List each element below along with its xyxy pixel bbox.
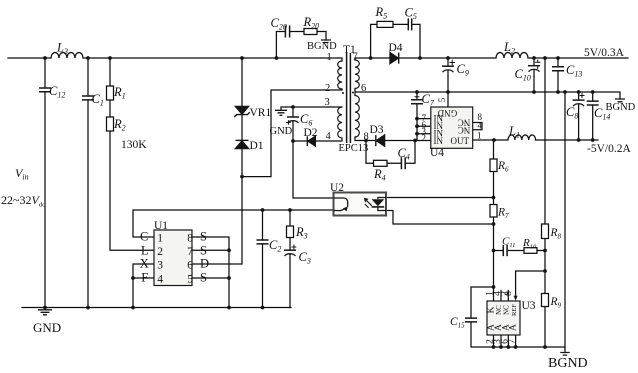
svg-text:U2: U2 (330, 182, 344, 194)
svg-text:A: A (509, 324, 519, 331)
svg-text:R1: R1 (113, 85, 126, 101)
svg-text:BGND: BGND (548, 356, 588, 371)
svg-text:GND: GND (33, 320, 61, 335)
svg-text:S: S (200, 230, 207, 244)
svg-text:6: 6 (187, 260, 193, 272)
svg-text:R20: R20 (303, 15, 320, 31)
svg-text:VR1: VR1 (250, 107, 272, 119)
svg-text:D3: D3 (370, 124, 384, 136)
svg-text:D4: D4 (389, 42, 403, 54)
svg-text:3: 3 (157, 260, 163, 272)
svg-text:C9: C9 (457, 62, 469, 78)
svg-text:R4: R4 (373, 167, 386, 183)
svg-text:C10: C10 (515, 67, 531, 83)
svg-text:C7: C7 (422, 92, 435, 108)
svg-text:2: 2 (422, 133, 427, 143)
svg-text:IN: IN (434, 136, 444, 146)
svg-text:D1: D1 (250, 140, 264, 152)
svg-text:C12: C12 (49, 84, 65, 100)
svg-text:4: 4 (157, 274, 163, 286)
svg-text:6: 6 (361, 83, 366, 94)
svg-text:S: S (200, 243, 207, 257)
svg-text:130K: 130K (121, 139, 147, 151)
svg-text:R8: R8 (550, 227, 562, 241)
svg-text:1: 1 (477, 131, 482, 141)
svg-text:22~32Vdc: 22~32Vdc (1, 193, 45, 209)
svg-text:R5: R5 (375, 5, 388, 21)
svg-text:5V/0.3A: 5V/0.3A (584, 47, 625, 59)
svg-text:8: 8 (364, 132, 369, 143)
svg-text:2: 2 (325, 83, 330, 94)
svg-text:-5V/0.2A: -5V/0.2A (587, 143, 631, 155)
svg-text:BGND: BGND (606, 102, 636, 113)
svg-text:C11: C11 (502, 236, 515, 250)
svg-text:R10: R10 (522, 237, 537, 251)
svg-text:8: 8 (504, 291, 514, 296)
svg-text:D2: D2 (304, 127, 318, 139)
svg-text:4: 4 (326, 131, 332, 142)
svg-text:5: 5 (187, 274, 193, 286)
svg-text:GND: GND (270, 126, 293, 137)
svg-text:7: 7 (508, 339, 518, 344)
svg-text:U3: U3 (522, 300, 536, 312)
svg-text:S: S (200, 271, 207, 285)
svg-text:OUT: OUT (451, 136, 470, 146)
svg-text:8: 8 (187, 233, 193, 245)
svg-text:C2: C2 (269, 238, 281, 254)
svg-text:REF: REF (511, 304, 518, 316)
svg-text:C: C (140, 230, 148, 244)
svg-text:R3: R3 (295, 225, 308, 241)
svg-text:NC: NC (458, 125, 471, 135)
svg-text:C20: C20 (271, 16, 287, 32)
svg-text:R6: R6 (497, 160, 509, 174)
svg-text:BGND: BGND (307, 41, 337, 52)
svg-text:EPC13: EPC13 (339, 143, 369, 154)
svg-text:C3: C3 (299, 250, 311, 266)
svg-text:5: 5 (437, 97, 447, 102)
svg-text:1: 1 (157, 233, 163, 245)
svg-text:C4: C4 (398, 146, 410, 162)
svg-text:NC: NC (502, 305, 510, 315)
svg-text:L2: L2 (503, 40, 515, 56)
svg-text:R9: R9 (550, 296, 562, 310)
svg-text:1: 1 (327, 52, 332, 63)
svg-text:C1: C1 (92, 92, 104, 108)
svg-text:2: 2 (157, 246, 163, 258)
svg-text:C8: C8 (566, 105, 578, 121)
svg-text:3: 3 (325, 97, 330, 108)
svg-text:C5: C5 (405, 6, 417, 22)
svg-text:Vin: Vin (15, 166, 29, 182)
svg-text:U1: U1 (154, 220, 168, 232)
svg-text:4: 4 (478, 121, 483, 131)
svg-text:R7: R7 (497, 207, 509, 221)
svg-text:L3: L3 (56, 41, 68, 57)
svg-text:7: 7 (353, 52, 358, 63)
svg-text:L1: L1 (508, 124, 520, 140)
svg-text:C13: C13 (566, 63, 582, 79)
svg-text:7: 7 (187, 246, 193, 258)
svg-text:L: L (141, 243, 149, 257)
svg-text:C6: C6 (300, 112, 312, 128)
svg-text:X: X (140, 257, 149, 271)
svg-text:R2: R2 (113, 117, 126, 133)
svg-text:U4: U4 (430, 147, 444, 159)
svg-text:D: D (200, 257, 209, 271)
svg-text:C15: C15 (450, 316, 465, 330)
svg-text:F: F (141, 271, 148, 285)
